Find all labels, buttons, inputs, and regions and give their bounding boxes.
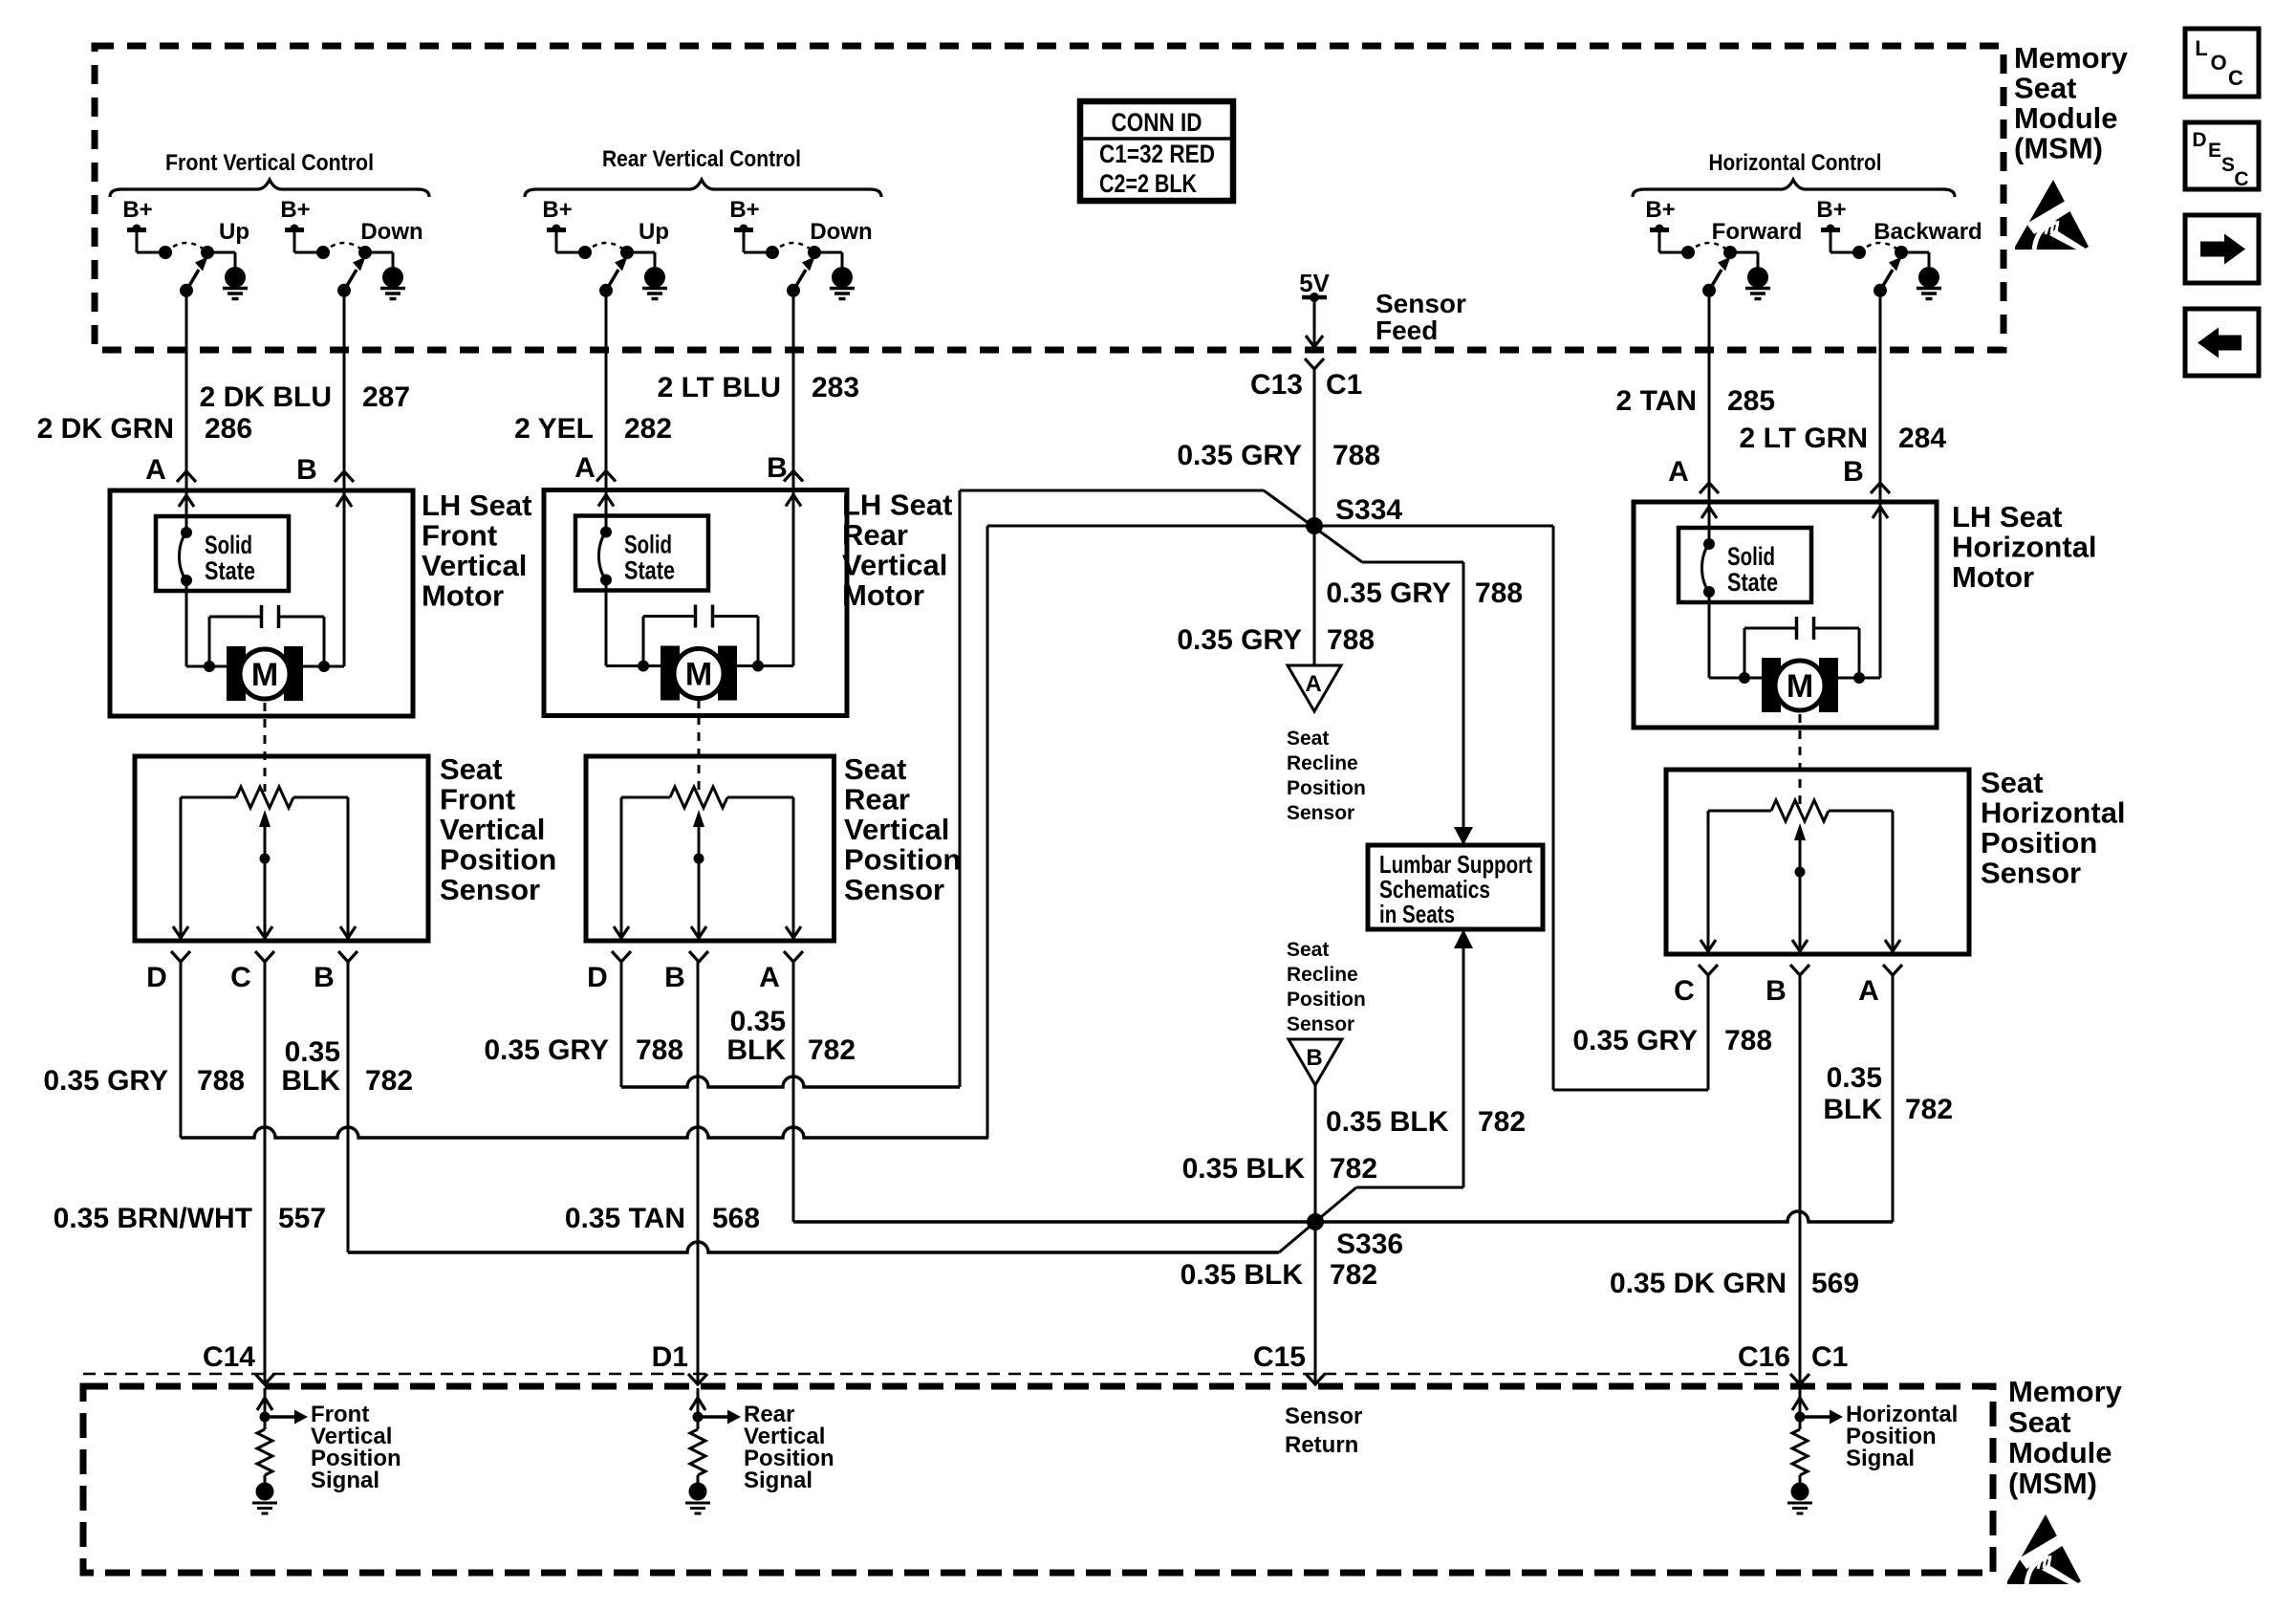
svg-text:Sensor: Sensor [440,873,540,906]
svg-text:B: B [314,962,335,993]
svg-text:C: C [2234,168,2248,190]
svg-text:A: A [574,452,596,484]
svg-text:Down: Down [810,219,872,245]
svg-text:CONN ID: CONN ID [1112,108,1202,137]
svg-text:788: 788 [1475,577,1523,609]
svg-text:Memory: Memory [2008,1375,2123,1408]
svg-text:Down: Down [360,219,422,245]
svg-text:0.35 TAN: 0.35 TAN [565,1203,685,1234]
svg-text:Rear: Rear [844,783,910,816]
svg-text:569: 569 [1811,1268,1859,1299]
svg-text:568: 568 [712,1203,760,1234]
svg-text:0.35 GRY: 0.35 GRY [1572,1025,1698,1056]
svg-text:Return: Return [1285,1432,1358,1458]
svg-text:782: 782 [1905,1094,1953,1125]
svg-text:B+: B+ [542,197,572,223]
svg-text:M: M [251,657,278,693]
svg-text:283: 283 [812,372,859,403]
svg-text:B: B [1765,975,1787,1007]
svg-text:0.35 DK GRN: 0.35 DK GRN [1610,1268,1787,1299]
svg-text:Seat: Seat [440,752,502,786]
svg-text:Seat: Seat [1287,728,1329,750]
svg-text:Front: Front [440,783,515,816]
svg-text:S334: S334 [1335,494,1402,526]
svg-text:E: E [2208,140,2221,162]
svg-text:C2=2 BLK: C2=2 BLK [1099,169,1197,198]
svg-text:Horizontal: Horizontal [1952,531,2097,564]
svg-text:Module: Module [2008,1436,2112,1469]
svg-text:557: 557 [278,1203,326,1234]
svg-text:788: 788 [636,1034,683,1066]
svg-text:A: A [759,962,780,993]
svg-text:C: C [2228,66,2243,90]
svg-text:0.35 GRY: 0.35 GRY [1177,440,1302,471]
svg-text:2 LT GRN: 2 LT GRN [1740,423,1868,454]
svg-text:Motor: Motor [842,578,924,612]
svg-text:287: 287 [362,381,410,413]
svg-text:0.35 BLK: 0.35 BLK [1180,1259,1304,1291]
svg-text:Up: Up [219,219,249,245]
svg-text:0.35: 0.35 [730,1006,786,1037]
svg-text:Signal: Signal [744,1468,812,1493]
svg-text:B: B [664,962,685,993]
svg-text:C: C [230,962,251,993]
svg-text:B+: B+ [1816,197,1846,223]
svg-text:O: O [2210,51,2226,75]
svg-text:in Seats: in Seats [1379,900,1455,928]
svg-text:2 DK BLU: 2 DK BLU [200,381,332,413]
svg-text:0.35: 0.35 [1827,1062,1882,1094]
svg-text:Memory: Memory [2014,41,2129,75]
svg-text:Backward: Backward [1874,219,1982,245]
svg-text:B+: B+ [1645,197,1675,223]
svg-text:C15: C15 [1253,1341,1306,1373]
svg-text:Seat: Seat [1981,766,2043,799]
svg-text:0.35 BRN/WHT: 0.35 BRN/WHT [54,1203,252,1234]
svg-text:Signal: Signal [311,1468,379,1493]
svg-text:Vertical: Vertical [844,813,949,846]
svg-text:B: B [296,454,317,486]
svg-text:B+: B+ [122,197,152,223]
svg-text:(MSM): (MSM) [2008,1467,2097,1500]
svg-text:Solid: Solid [1727,542,1775,571]
svg-text:782: 782 [1330,1259,1377,1291]
svg-text:2 TAN: 2 TAN [1616,385,1697,417]
svg-text:782: 782 [1330,1153,1377,1185]
svg-text:C14: C14 [203,1341,255,1373]
svg-text:Position: Position [1287,989,1366,1011]
svg-text:D: D [146,962,167,993]
svg-text:Motor: Motor [1952,560,2034,594]
svg-text:Position: Position [1287,777,1366,799]
svg-text:Sensor: Sensor [844,873,944,906]
svg-text:A: A [1305,671,1321,697]
svg-text:Module: Module [2014,101,2118,135]
svg-text:(MSM): (MSM) [2014,132,2103,165]
svg-text:S: S [2221,154,2235,176]
svg-text:B+: B+ [280,197,310,223]
svg-text:788: 788 [197,1065,245,1097]
svg-text:Solid: Solid [624,531,672,559]
svg-text:Front Vertical Control: Front Vertical Control [165,150,374,176]
svg-text:BLK: BLK [726,1034,786,1066]
svg-text:788: 788 [1724,1025,1772,1056]
svg-text:Recline: Recline [1287,752,1358,774]
svg-text:Recline: Recline [1287,964,1358,986]
svg-text:C1: C1 [1811,1341,1848,1373]
svg-text:A: A [1668,456,1689,488]
svg-text:Motor: Motor [422,579,504,613]
svg-text:Position: Position [440,843,556,877]
svg-text:Rear: Rear [842,518,908,552]
svg-text:Sensor: Sensor [1375,289,1466,318]
svg-text:Solid: Solid [205,531,252,559]
svg-text:M: M [685,657,712,693]
svg-text:0.35: 0.35 [285,1036,340,1068]
svg-text:Up: Up [639,219,669,245]
svg-text:Front: Front [422,519,497,553]
svg-text:D1: D1 [652,1341,688,1373]
svg-text:B: B [1843,456,1864,488]
svg-text:LH Seat: LH Seat [1952,500,2062,533]
svg-text:284: 284 [1898,423,1946,454]
svg-text:Rear Vertical Control: Rear Vertical Control [602,146,801,172]
svg-text:282: 282 [624,413,672,445]
svg-text:Horizontal Control: Horizontal Control [1709,150,1882,176]
svg-text:C: C [1674,975,1695,1007]
svg-text:Feed: Feed [1375,315,1438,345]
svg-text:D: D [587,962,608,993]
svg-text:C16: C16 [1738,1341,1790,1373]
svg-text:Sensor: Sensor [1981,857,2081,890]
svg-text:S336: S336 [1336,1229,1403,1260]
svg-text:B: B [1306,1045,1322,1071]
svg-text:Seat: Seat [2014,72,2076,105]
svg-text:782: 782 [365,1065,413,1097]
svg-text:State: State [1727,568,1778,597]
svg-text:C1: C1 [1326,369,1362,401]
svg-text:0.35 GRY: 0.35 GRY [1326,577,1451,609]
svg-text:Horizontal: Horizontal [1981,796,2126,830]
svg-text:C13: C13 [1250,369,1303,401]
svg-text:788: 788 [1332,440,1380,471]
svg-text:LH Seat: LH Seat [422,489,531,522]
svg-text:Signal: Signal [1846,1446,1915,1471]
svg-text:0.35 BLK: 0.35 BLK [1182,1153,1306,1185]
svg-text:L: L [2195,36,2207,60]
svg-text:Vertical: Vertical [422,549,527,582]
svg-text:782: 782 [1478,1106,1526,1138]
svg-text:Position: Position [844,843,961,877]
svg-text:Forward: Forward [1712,219,1803,245]
svg-text:0.35 GRY: 0.35 GRY [43,1065,168,1097]
svg-text:Seat: Seat [1287,939,1329,961]
svg-text:B+: B+ [729,197,759,223]
svg-text:2 DK GRN: 2 DK GRN [37,413,174,445]
svg-text:2 LT BLU: 2 LT BLU [658,372,781,403]
svg-text:Position: Position [1981,826,2097,859]
svg-text:BLK: BLK [1823,1094,1882,1125]
svg-text:0.35 GRY: 0.35 GRY [484,1034,609,1066]
svg-text:D: D [2192,129,2206,151]
svg-text:State: State [205,556,255,585]
svg-text:788: 788 [1327,624,1375,656]
svg-text:Sensor: Sensor [1287,802,1354,824]
svg-text:Seat: Seat [2008,1405,2070,1439]
svg-text:Seat: Seat [844,752,906,786]
svg-text:0.35 BLK: 0.35 BLK [1326,1106,1449,1138]
svg-text:State: State [624,556,675,585]
svg-text:Vertical: Vertical [842,549,947,582]
svg-text:0.35 GRY: 0.35 GRY [1177,624,1302,656]
svg-text:LH Seat: LH Seat [842,489,952,522]
svg-text:Vertical: Vertical [440,813,545,846]
svg-text:C1=32 RED: C1=32 RED [1099,140,1215,168]
svg-text:Sensor: Sensor [1287,1013,1354,1035]
svg-text:Sensor: Sensor [1285,1403,1362,1429]
svg-text:A: A [145,454,166,486]
svg-text:M: M [1787,668,1813,705]
svg-text:782: 782 [808,1034,856,1066]
svg-text:2 YEL: 2 YEL [514,413,594,445]
svg-text:286: 286 [205,413,252,445]
svg-text:A: A [1858,975,1879,1007]
svg-text:285: 285 [1727,385,1775,417]
svg-text:BLK: BLK [281,1065,340,1097]
